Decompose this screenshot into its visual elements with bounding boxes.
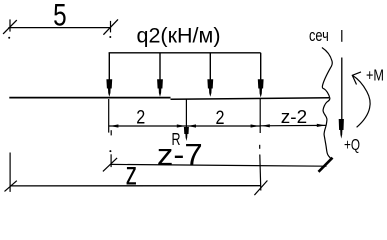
load arrow 4	[258, 53, 264, 98]
dimension z line	[10, 185, 261, 187]
load arrow 2	[157, 53, 163, 97]
dimension 5 right tick	[103, 19, 118, 34]
svg-text:z-2: z-2	[281, 106, 307, 127]
svg-text:q2(кН/м): q2(кН/м)	[137, 23, 221, 47]
svg-text:z-7: z-7	[157, 137, 203, 172]
dimension 5 right extension stub	[110, 21, 112, 33]
extension line C dash-dot lower part	[259, 145, 261, 149]
dimension z-7 line	[111, 164, 327, 166]
svg-text:сеч: сеч	[309, 27, 329, 45]
dim arrow left of first 2	[110, 124, 119, 127]
z-7 right tick	[319, 158, 333, 172]
dim arrow left of second 2	[188, 124, 196, 127]
extension line C	[259, 99, 261, 133]
svg-text:z: z	[126, 155, 138, 192]
dim arrow right of second 2	[251, 124, 259, 127]
+Q arrowhead	[339, 119, 344, 139]
z left extension line	[9, 153, 11, 192]
dimension row line z-2	[260, 124, 326, 126]
svg-text:2: 2	[216, 107, 225, 129]
stub above z-7 left tick	[110, 130, 112, 135]
dim arrow left of z-2	[261, 124, 269, 127]
section wavy break line	[322, 48, 332, 160]
extension dot right	[109, 36, 111, 38]
+M moment arc	[352, 75, 370, 127]
z-7 left tick	[103, 158, 117, 172]
dot above z-7 left tick	[109, 150, 111, 152]
beam line right segment	[171, 98, 330, 99]
dimension 5 line	[8, 27, 111, 29]
z left tick	[5, 181, 17, 192]
+Q force line	[341, 58, 343, 126]
load arrow 1	[106, 53, 112, 97]
svg-text:+Q: +Q	[344, 137, 360, 154]
dim arrow right of first 2	[177, 124, 185, 127]
beam line left segment	[9, 97, 170, 99]
reaction arrow R	[184, 127, 189, 141]
z right tick	[254, 181, 267, 196]
distributed load top line	[109, 52, 261, 54]
extension dot left	[8, 37, 10, 39]
extension line B (support R)	[185, 99, 187, 128]
svg-text:+M: +M	[366, 68, 384, 85]
dimension 5 left tick	[3, 20, 17, 34]
svg-text:5: 5	[53, 0, 67, 32]
z-7 left extension stub	[110, 154, 112, 167]
+Q dash stub above	[341, 30, 343, 42]
load arrow 3	[207, 53, 213, 97]
+M arc arrowhead	[352, 72, 361, 85]
dimension 5 left extension stub	[9, 19, 11, 31]
dimension row line 2+2	[109, 125, 261, 127]
extension line A	[108, 99, 110, 133]
dim arrow right of z-2	[317, 124, 325, 127]
svg-text:2: 2	[136, 106, 145, 128]
